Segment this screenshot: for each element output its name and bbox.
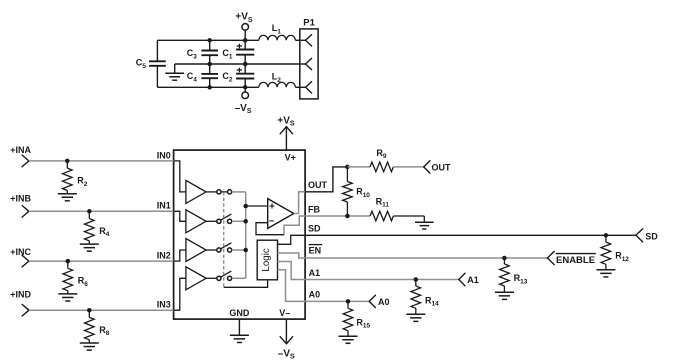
resistor R2	[66, 161, 68, 168]
svg-text:IN3: IN3	[157, 300, 171, 310]
svg-text:A0: A0	[378, 297, 390, 307]
node bus switch S3	[243, 248, 248, 253]
svg-text:IN1: IN1	[157, 201, 171, 211]
node OUT R9 R10	[345, 165, 350, 170]
terminal +INA	[22, 155, 29, 161]
svg-text:ENABLE: ENABLE	[556, 255, 595, 266]
svg-text:IN2: IN2	[157, 251, 171, 261]
switch S4 open blade	[221, 271, 231, 277]
svg-text:C1: C1	[222, 48, 233, 60]
wire switch S4 to bus	[232, 277, 246, 279]
terminal +IND	[22, 304, 29, 310]
wire buffer 3 to switch	[206, 249, 217, 251]
svg-text:SD: SD	[645, 231, 658, 241]
capacitor C2 polarized	[236, 73, 254, 75]
wire top supply rail	[157, 39, 258, 41]
terminal ENABLE	[547, 251, 554, 258]
inductor L2	[259, 82, 296, 87]
node A1 R14	[414, 277, 419, 282]
resistor R6	[67, 261, 69, 268]
svg-text:V+: V+	[285, 153, 296, 163]
node input +INA junction	[65, 159, 70, 164]
svg-text:+INB: +INB	[10, 194, 31, 204]
wire analog bus	[245, 192, 247, 278]
wire A1 pin to terminal	[305, 279, 459, 281]
wire feedback loop to inverting input	[256, 223, 284, 235]
buffer amplifier 3	[186, 239, 206, 262]
wire switch S3 to bus	[232, 249, 246, 251]
wire bottom supply rail	[157, 86, 258, 88]
wire op-amp output to OUT pin	[294, 192, 305, 214]
wire R11 to ground	[393, 215, 424, 217]
terminal A1	[459, 273, 465, 279]
wire IN1 jog to buffer 2	[174, 211, 186, 221]
connector P1 pin 3	[306, 82, 312, 88]
resistor R9	[370, 162, 393, 172]
wire FB pin to R11	[305, 215, 370, 217]
capacitor C3	[201, 50, 218, 52]
svg-text:R12: R12	[615, 251, 629, 263]
resistor R14	[415, 280, 417, 287]
wire logic to A0 pin	[278, 270, 306, 302]
resistor R4	[88, 211, 90, 218]
power +VS arrow to V+ pin	[285, 127, 287, 150]
wire logic to EN pin	[278, 253, 306, 258]
wire R9 to OUT terminal	[393, 166, 423, 168]
capacitor C4	[201, 73, 218, 75]
wire logic to A1 pin	[278, 262, 306, 280]
buffer amplifier 2	[186, 210, 206, 233]
wire A0 pin to terminal	[305, 300, 369, 302]
op-amp output amplifier	[268, 199, 294, 229]
switch S4 contacts	[217, 276, 221, 280]
svg-text:A0: A0	[309, 290, 321, 300]
ground R4	[80, 243, 99, 245]
svg-text:R15: R15	[356, 317, 370, 329]
wire C5 branch	[156, 40, 158, 61]
node input +IND junction	[87, 308, 92, 313]
terminal A0	[369, 295, 375, 301]
ground top filter	[174, 64, 176, 73]
wire IN3 jog to buffer 4	[174, 278, 186, 310]
svg-text:R13: R13	[514, 273, 528, 285]
node input +INB junction	[87, 209, 92, 214]
wire EN pin to ENABLE	[305, 257, 547, 259]
svg-text:+VS: +VS	[235, 12, 253, 24]
wire buffer 2 to switch	[206, 220, 217, 222]
svg-text:C4: C4	[187, 71, 198, 83]
ground R11	[415, 221, 434, 223]
terminal +VS top	[242, 24, 249, 31]
wire node to R9	[347, 166, 370, 168]
power -VS arrow from V- pin	[285, 319, 287, 343]
ground R13	[495, 291, 514, 293]
node top rail junctions	[207, 38, 212, 43]
switch S3 open blade	[221, 243, 231, 249]
ground R15	[339, 335, 358, 337]
svg-text:V–: V–	[279, 308, 290, 318]
svg-text:+IND: +IND	[10, 290, 31, 300]
buffer amplifier 1	[186, 180, 206, 203]
wire switch S1 to bus	[232, 191, 246, 193]
node bus switch S2	[243, 219, 248, 224]
ground R2	[58, 193, 77, 195]
svg-text:+INA: +INA	[10, 145, 31, 155]
svg-text:IN0: IN0	[157, 150, 171, 160]
wire input +IND to IN3	[29, 309, 174, 311]
logic block	[257, 240, 277, 280]
terminal +INC	[22, 255, 29, 261]
svg-text:R11: R11	[376, 196, 390, 208]
switch S3 contacts	[217, 248, 221, 252]
wire FB pin staircase	[284, 216, 305, 235]
wire linkage to logic	[224, 280, 268, 288]
connector P1 pin 2	[306, 58, 312, 64]
wire C3 C4 branch	[209, 40, 211, 50]
svg-text:L1: L1	[272, 23, 282, 35]
switch S2 open blade	[221, 214, 231, 220]
resistor R15	[347, 301, 349, 308]
resistor R11	[370, 211, 393, 221]
resistor R13	[503, 258, 505, 264]
svg-text:C3: C3	[187, 48, 198, 60]
ground R14	[406, 313, 425, 315]
node FB R10 R11	[345, 214, 350, 219]
resistor R12	[605, 235, 607, 242]
node bus to op-amp	[243, 204, 248, 209]
wire middle rail	[175, 63, 306, 65]
switch S2 contacts	[217, 219, 221, 223]
wire IN0 jog to buffer 1	[174, 161, 186, 192]
svg-text:R14: R14	[425, 295, 439, 307]
resistor R10	[346, 167, 348, 182]
terminal +INB	[22, 206, 29, 212]
svg-text:Logic: Logic	[261, 248, 272, 272]
svg-text:R8: R8	[99, 325, 110, 337]
wire OUT pin elbow	[305, 167, 347, 192]
inductor L1	[259, 35, 296, 40]
svg-text:+INC: +INC	[10, 247, 31, 257]
svg-text:R4: R4	[99, 226, 110, 238]
terminal -VS bottom	[242, 92, 249, 99]
svg-text:R6: R6	[78, 276, 89, 288]
wire input +INB to IN1	[29, 210, 174, 212]
node EN R13	[502, 256, 507, 261]
ground GND pin	[238, 319, 240, 335]
svg-text:OUT: OUT	[432, 162, 452, 172]
wire IN2 jog to buffer 3	[174, 250, 186, 261]
wire input +INC to IN2	[29, 260, 174, 262]
svg-text:C5: C5	[136, 58, 147, 70]
svg-text:A1: A1	[467, 275, 479, 285]
buffer amplifier 4	[186, 267, 206, 290]
svg-text:P1: P1	[303, 18, 315, 29]
terminal OUT	[424, 161, 430, 167]
svg-text:R9: R9	[376, 148, 387, 160]
wire bus to op-amp noninverting input	[246, 205, 268, 207]
capacitor C5	[149, 60, 166, 62]
wire C1 C2 branch	[244, 40, 246, 49]
capacitor C1 polarized	[236, 49, 254, 51]
svg-text:EN: EN	[309, 246, 322, 256]
resistor R8	[88, 310, 90, 317]
node middle rail junctions	[207, 62, 212, 67]
switch S1 contacts	[217, 190, 221, 194]
svg-text:SD: SD	[308, 224, 321, 234]
wire buffer 4 to switch	[206, 277, 217, 279]
node input +INC junction	[66, 259, 71, 264]
svg-text:–VS: –VS	[278, 349, 295, 360]
svg-text:C2: C2	[222, 71, 233, 83]
ground R8	[80, 342, 99, 344]
svg-text:+VS: +VS	[277, 116, 295, 128]
terminal SD	[636, 229, 643, 236]
switch S1 closed blade	[221, 191, 227, 193]
node SD R12	[604, 233, 609, 238]
node A0 R15	[346, 299, 351, 304]
svg-text:–VS: –VS	[235, 103, 252, 115]
svg-text:R2: R2	[77, 176, 88, 188]
op-amp mux IC U1 outline	[174, 150, 306, 319]
wire buffer 1 to switch	[206, 191, 217, 193]
svg-text:GND: GND	[229, 308, 250, 318]
wire switch linkage dashed	[223, 192, 225, 287]
svg-text:FB: FB	[308, 204, 320, 214]
svg-text:A1: A1	[309, 268, 321, 278]
svg-text:R10: R10	[356, 187, 370, 199]
wire logic to SD pin	[278, 235, 306, 244]
svg-text:OUT: OUT	[308, 180, 328, 190]
ground R12	[596, 269, 615, 271]
node bottom rail junctions	[207, 85, 212, 90]
wire switch S2 to bus	[232, 220, 246, 222]
connector P1	[300, 29, 318, 99]
ground R6	[58, 293, 77, 295]
wire SD pin	[305, 234, 636, 236]
connector P1 pin 1	[306, 35, 312, 41]
wire input +INA to IN0	[29, 160, 174, 162]
